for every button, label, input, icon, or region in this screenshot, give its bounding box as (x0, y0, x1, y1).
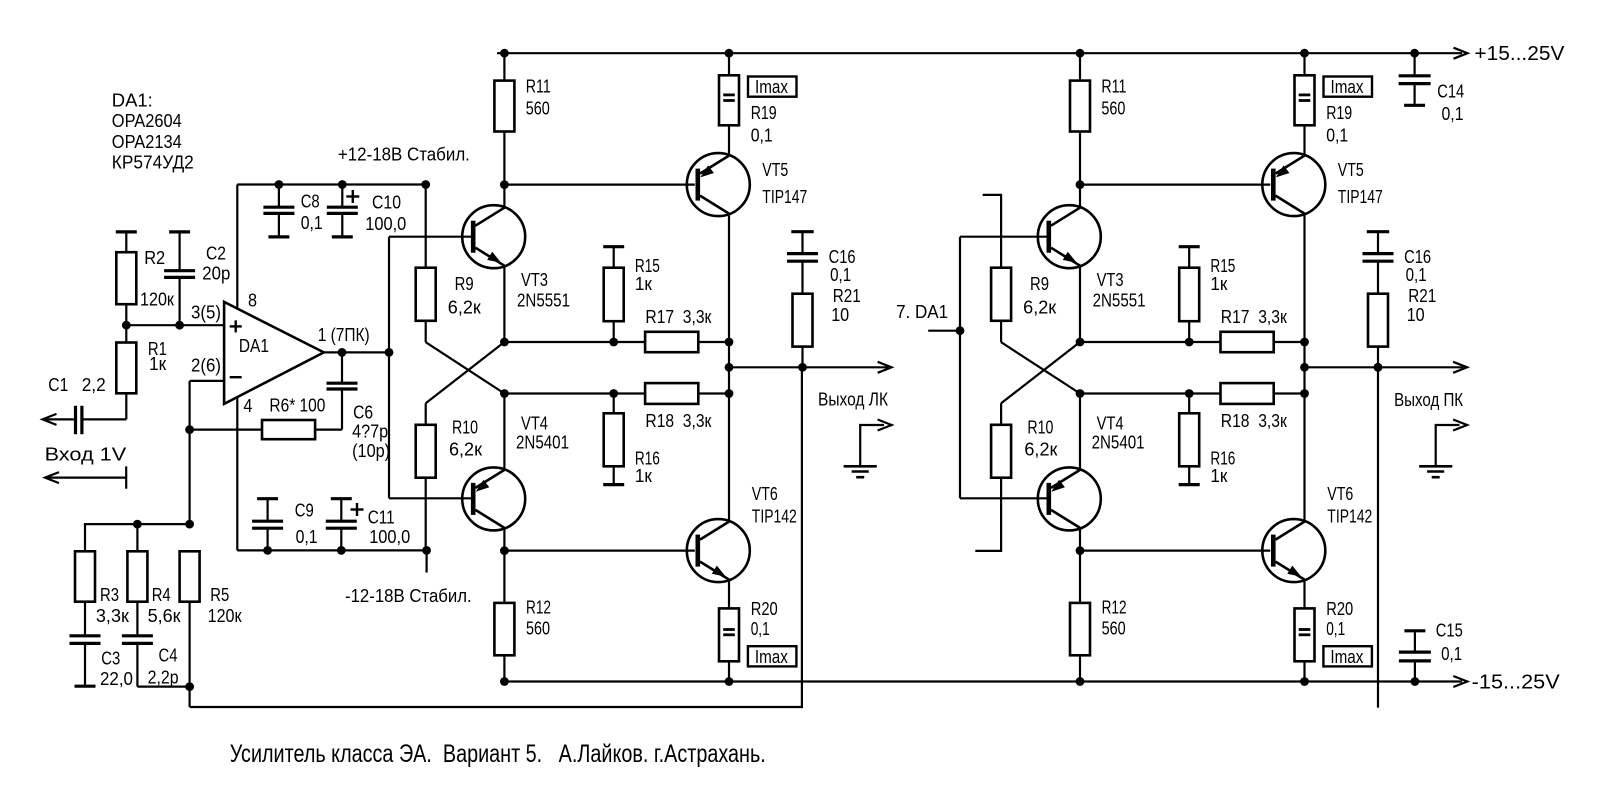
label R10 (449, 418, 482, 460)
wire input arrow (43, 414, 57, 425)
transistor VT3 (462, 205, 525, 268)
svg-text:Imax: Imax (1331, 77, 1364, 97)
transistor VT4 (right) (1038, 467, 1101, 530)
wire output arrowhead (878, 362, 892, 373)
wire VT5 base line (right) (1080, 184, 1270, 186)
svg-text:C16: C16 (829, 247, 856, 267)
node VT3 collector junction (500, 180, 509, 189)
resistor R20 current sense (719, 580, 739, 682)
node C2 bottom junction (175, 321, 184, 330)
resistor R10 (416, 403, 436, 477)
svg-text:TIP147: TIP147 (1338, 187, 1383, 207)
svg-text:R18 3,3к: R18 3,3к (1221, 411, 1287, 431)
svg-text:3(5): 3(5) (191, 303, 221, 323)
node R19 top (725, 49, 734, 58)
wire VT3 base line (right) (960, 236, 1047, 238)
svg-text:100,0: 100,0 (365, 214, 406, 234)
node R19 top (right) (1300, 49, 1309, 58)
svg-text:R3: R3 (100, 585, 119, 605)
label R11 (right) (1101, 76, 1126, 118)
svg-text:6,2к: 6,2к (1024, 440, 1057, 460)
node VT4-R12 junction (500, 546, 509, 555)
op-amp plus input symbol (230, 325, 242, 327)
label C14 (1437, 82, 1464, 125)
svg-text:C8: C8 (301, 192, 320, 212)
wire divider top line (85, 524, 190, 551)
wire output ground arrow (860, 425, 884, 466)
resistor R19 current sense (right) (1295, 53, 1315, 155)
svg-text:2,2: 2,2 (82, 375, 106, 395)
transistor VT5 (right) (1262, 153, 1325, 216)
resistor R2 (116, 232, 137, 343)
wire upper rail (right) (1080, 341, 1305, 343)
node channel-2 output junction (956, 326, 965, 335)
svg-text:2N5401: 2N5401 (1092, 433, 1145, 453)
svg-text:VT6: VT6 (1327, 484, 1353, 504)
svg-text:C9: C9 (295, 501, 314, 521)
svg-text:8: 8 (248, 291, 257, 311)
wire input ground line with terminal (46, 466, 126, 488)
capacitor C16 (787, 232, 818, 294)
node C4-R5 junction (185, 682, 194, 691)
label R12 (right) (1102, 598, 1127, 639)
wire non-inverting input (126, 324, 224, 326)
svg-text:560: 560 (1102, 619, 1126, 639)
label R9 (448, 274, 481, 318)
label R21 (831, 286, 861, 325)
svg-text:VT4: VT4 (1097, 414, 1124, 434)
label VT6 (752, 484, 797, 527)
svg-text:Вход 1V: Вход 1V (45, 444, 127, 464)
svg-text:R11: R11 (526, 76, 551, 96)
label R20 (751, 599, 778, 639)
label R19 (right) (1326, 103, 1352, 145)
wire VT4 collector lead (503, 529, 505, 551)
label R9 (right) (1023, 274, 1056, 318)
wire VT5 base line (504, 184, 694, 186)
wire input ground arrowhead (45, 472, 59, 483)
wire output ground arrow (right) (1436, 425, 1460, 466)
svg-text:Усилитель класса ЭА. Вариант: Усилитель класса ЭА. Вариант 5. А.Лайков… (230, 740, 766, 768)
label R10 (right) (1024, 418, 1057, 460)
node R17 right (725, 338, 734, 347)
svg-text:TIP142: TIP142 (1327, 507, 1372, 527)
label C4 (148, 646, 179, 688)
label C1 (48, 375, 105, 395)
wire VT4 collector lead (right) (1079, 529, 1081, 551)
svg-text:Выход ПК: Выход ПК (1394, 390, 1463, 410)
transistor VT6 (687, 519, 750, 582)
capacitor C16 (right) (1363, 232, 1394, 294)
svg-text:R17 3,3к: R17 3,3к (645, 307, 711, 327)
svg-text:R10: R10 (452, 418, 478, 438)
wire output tap (729, 366, 888, 368)
label R1 (148, 339, 167, 374)
label R2 (140, 248, 174, 309)
label R11 (526, 76, 551, 118)
capacitor C11 polarized (326, 499, 364, 551)
svg-text:C6: C6 (353, 402, 373, 422)
svg-text:C10: C10 (372, 193, 401, 213)
svg-text:560: 560 (1101, 99, 1125, 119)
svg-text:C15: C15 (1436, 620, 1463, 640)
resistor R1 (116, 343, 136, 420)
label R15 (right) (1210, 256, 1235, 294)
label Imax box top (748, 77, 797, 97)
resistor R17 (645, 332, 698, 352)
capacitor C14 (1399, 53, 1431, 105)
label R12 (526, 598, 551, 639)
wire -12-18V stabilized rail (237, 549, 426, 551)
node op-amp output junction (385, 348, 394, 357)
svg-text:+15...25V: +15...25V (1474, 43, 1565, 65)
wire lower rail (504, 392, 729, 394)
svg-text:0,1: 0,1 (1326, 125, 1348, 145)
svg-text:R15: R15 (635, 256, 660, 276)
svg-text:0,1: 0,1 (301, 213, 323, 233)
resistor R12 (494, 551, 514, 682)
svg-text:R18 3,3к: R18 3,3к (645, 411, 711, 431)
resistor R20 current sense (right) (1295, 580, 1315, 682)
svg-text:1к: 1к (635, 466, 652, 486)
label VT6 (right) (1327, 484, 1372, 527)
resistor R3 (75, 551, 95, 601)
node R15 bottom (609, 338, 618, 347)
wire VT5 collector lead (728, 214, 730, 342)
wire upper rail (504, 341, 729, 343)
svg-text:R6* 100: R6* 100 (269, 395, 325, 415)
wire VT3 emitter lead (503, 266, 505, 342)
wire R10 bottom lead (right) (975, 478, 1001, 551)
node R16 top (right) (1185, 389, 1194, 398)
svg-text:100,0: 100,0 (369, 527, 410, 547)
wire VT5 collector lead (right) (1303, 214, 1305, 342)
svg-text:R12: R12 (1102, 598, 1127, 618)
transistor VT6 (right) (1262, 519, 1325, 582)
transistor VT4 (462, 467, 525, 530)
label R16 (635, 449, 660, 487)
svg-text:C11: C11 (368, 508, 395, 528)
label C9 (295, 501, 318, 547)
transistor VT3 (right) (1038, 205, 1101, 268)
svg-text:-15...25V: -15...25V (1472, 671, 1561, 693)
label VT5 (right) (1338, 160, 1383, 207)
svg-text:2,2p: 2,2p (148, 667, 179, 687)
resistor R10 (right) (991, 403, 1011, 477)
node R18 right (right) (1300, 389, 1309, 398)
svg-text:0,1: 0,1 (296, 527, 318, 547)
node C11 bottom (337, 546, 346, 555)
wire op-amp output vertical (388, 237, 390, 499)
svg-text:R11: R11 (1101, 76, 1126, 96)
capacitor C6 (315, 352, 357, 429)
node R20 bottom (right) (1300, 677, 1309, 686)
label Imax box top (right) (1324, 77, 1373, 97)
resistor R9 (right) (991, 268, 1011, 343)
wire ground arrowhead (right) (1453, 420, 1467, 431)
wire output column (right) (1303, 342, 1305, 394)
svg-text:0,1: 0,1 (1326, 619, 1345, 639)
svg-text:R21: R21 (833, 286, 861, 306)
svg-text:C2: C2 (206, 244, 226, 264)
resistor R17 (right) (1221, 332, 1274, 352)
node R1-R2 junction (122, 321, 131, 330)
wire VT4 emitter lead (503, 394, 505, 470)
label VT4 (right) (1092, 414, 1145, 453)
resistor R11 (right) (1070, 53, 1090, 184)
svg-text:0,1: 0,1 (751, 125, 773, 145)
wire feedback line (190, 367, 802, 707)
node upper rail left (right) (1076, 338, 1085, 347)
wire VT3 emitter lead (right) (1079, 266, 1081, 342)
label R21 (right) (1407, 286, 1437, 325)
wire VT3 collector lead (right) (1079, 185, 1081, 208)
wire output arrowhead (right) (1453, 362, 1467, 373)
label R4 (148, 585, 181, 626)
svg-text:R15: R15 (1210, 256, 1235, 276)
svg-text:R19: R19 (751, 103, 777, 123)
svg-text:R10: R10 (1027, 418, 1053, 438)
label C6 (352, 402, 390, 461)
svg-text:4: 4 (243, 396, 252, 416)
wire inverting input (190, 380, 225, 382)
label C10 (365, 193, 406, 234)
wire op-amp pin4 supply line (236, 397, 238, 550)
wire op-amp pin8 supply line (236, 185, 238, 309)
svg-text:R5: R5 (210, 585, 229, 605)
svg-text:10: 10 (831, 305, 849, 325)
label Imax box bottom (748, 646, 797, 666)
capacitor C1 input (44, 406, 126, 434)
node C9 bottom (263, 546, 272, 555)
svg-text:C1: C1 (48, 375, 68, 395)
resistor R5 (180, 551, 200, 601)
node R16 top (609, 389, 618, 398)
label R3 (96, 585, 129, 626)
svg-text:6,2к: 6,2к (1023, 298, 1056, 318)
resistor R6 (190, 420, 316, 439)
op-amp U1 DA1 triangle (224, 302, 324, 404)
resistor R16 (603, 394, 624, 485)
node lower rail left (right) (1076, 389, 1085, 398)
node upper rail left (500, 338, 509, 347)
svg-text:0,1: 0,1 (830, 265, 851, 285)
node feedback stub top (right) (1374, 363, 1383, 372)
resistor R19 current sense (719, 53, 739, 155)
svg-text:7. DA1: 7. DA1 (896, 302, 948, 322)
wire R10 diagonal (426, 342, 505, 403)
svg-text:4?7p: 4?7p (352, 422, 388, 442)
label R19 (751, 103, 777, 145)
svg-text:OPA2604: OPA2604 (112, 111, 182, 131)
node R12 bottom (right) (1076, 677, 1085, 686)
node output tap (right) (1300, 363, 1309, 372)
node VT3 collector junction (right) (1076, 180, 1085, 189)
svg-text:R2: R2 (144, 248, 165, 268)
label R20 (right) (1326, 599, 1353, 639)
node R18 right (725, 389, 734, 398)
svg-text:1к: 1к (1210, 466, 1227, 486)
op-amp minus input symbol (230, 376, 242, 378)
wire ground arrowhead (878, 420, 892, 431)
resistor R21 (right) (1368, 294, 1388, 368)
svg-text:1к: 1к (149, 354, 166, 374)
wire feedback stub (right) (1377, 367, 1379, 707)
svg-text:0,1: 0,1 (1442, 104, 1464, 124)
label Imax box bottom (right) (1323, 646, 1372, 666)
label C16 (829, 247, 856, 285)
svg-text:VT5: VT5 (1338, 160, 1364, 180)
resistor R15 (603, 247, 624, 342)
capacitor C15 (1399, 631, 1431, 682)
label C16 (right) (1404, 247, 1431, 285)
svg-text:R21: R21 (1408, 286, 1436, 306)
resistor R12 (right) (1070, 551, 1090, 682)
label DA1 types list (112, 90, 194, 172)
svg-text:1к: 1к (1210, 274, 1227, 294)
node R5 top (185, 520, 194, 529)
label C8 (301, 192, 323, 234)
wire VT4 base line (389, 497, 471, 499)
label R16 (right) (1210, 449, 1235, 487)
svg-text:6,2к: 6,2к (449, 440, 482, 460)
node R11 top (right) (1076, 49, 1085, 58)
node C10 top (338, 180, 347, 189)
svg-text:R17 3,3к: R17 3,3к (1221, 307, 1287, 327)
label C3 (100, 648, 133, 688)
svg-text:22,0: 22,0 (100, 669, 133, 689)
capacitor C9 (252, 499, 283, 551)
wire VT3 base line (389, 236, 471, 238)
resistor R21 (793, 294, 813, 368)
wire output tap (right) (1305, 366, 1464, 368)
svg-text:R9: R9 (455, 274, 474, 294)
svg-text:VT6: VT6 (752, 484, 778, 504)
node R11 top (500, 49, 509, 58)
node R21 bottom (right) (1374, 363, 1383, 372)
label VT3 (right) (1093, 270, 1146, 311)
wire VT6 base line (right) (1080, 549, 1270, 551)
svg-text:+12-18В Стабил.: +12-18В Стабил. (338, 145, 470, 165)
svg-text:VT3: VT3 (1097, 270, 1124, 290)
svg-text:20p: 20p (202, 263, 230, 283)
svg-text:560: 560 (526, 619, 550, 639)
svg-text:VT5: VT5 (762, 160, 788, 180)
svg-text:-12-18В Стабил.: -12-18В Стабил. (345, 586, 472, 606)
resistor R11 (494, 53, 514, 184)
svg-text:2N5401: 2N5401 (516, 433, 569, 453)
node R21 bottom (798, 363, 807, 372)
node R15 bottom (right) (1185, 338, 1194, 347)
svg-text:0,1: 0,1 (751, 619, 770, 639)
label VT4 (516, 414, 569, 453)
resistor R16 (right) (1179, 394, 1200, 485)
svg-text:5,6к: 5,6к (148, 606, 181, 626)
label C15 (1436, 620, 1463, 664)
wire +12-18V stabilized rail (237, 183, 425, 185)
svg-text:Imax: Imax (755, 647, 788, 667)
ground symbol (844, 466, 877, 477)
wire VT6 base line (504, 549, 694, 551)
wire output column (728, 342, 730, 394)
svg-text:Выход ЛК: Выход ЛК (818, 389, 888, 409)
node -12-18V rail / R10 junction (422, 546, 431, 555)
resistor R15 (right) (1179, 247, 1200, 342)
node lower rail left (500, 389, 509, 398)
node R4 top (133, 520, 142, 529)
svg-text:C14: C14 (1437, 82, 1464, 102)
resistor R18 (645, 383, 698, 404)
svg-text:6,2к: 6,2к (448, 298, 481, 318)
wire R9 top lead (425, 185, 427, 268)
svg-text:C4: C4 (159, 646, 178, 666)
wire +15V arrowhead (1454, 48, 1468, 59)
label VT3 (517, 270, 570, 311)
svg-text:1 (7ПК): 1 (7ПК) (318, 325, 370, 345)
node +12-18V rail end (421, 180, 430, 189)
svg-text:C3: C3 (101, 648, 120, 668)
svg-text:DA1: DA1 (239, 336, 269, 356)
svg-text:DA1:: DA1: (112, 90, 153, 110)
capacitor C4 (122, 602, 190, 687)
wire -15V supply rail (504, 680, 1462, 682)
wire +12-18V stub (right) (983, 195, 1001, 268)
svg-text:120к: 120к (140, 289, 174, 309)
node C8 top (275, 180, 284, 189)
svg-text:1к: 1к (635, 274, 652, 294)
node R20 bottom (725, 677, 734, 686)
node C14 top (1410, 49, 1419, 58)
wire R5 bottom lead (189, 602, 191, 707)
wire R9 diagonal (right) (1001, 342, 1080, 393)
node C6 top (338, 348, 347, 357)
svg-text:R20: R20 (1326, 599, 1353, 619)
svg-text:0,1: 0,1 (1441, 644, 1462, 664)
svg-text:R20: R20 (751, 599, 778, 619)
svg-text:TIP142: TIP142 (752, 507, 797, 527)
svg-text:120к: 120к (208, 606, 242, 626)
svg-text:10: 10 (1407, 305, 1425, 325)
resistor R9 (416, 268, 436, 343)
svg-text:R4: R4 (152, 585, 171, 605)
svg-text:3,3к: 3,3к (96, 606, 129, 626)
svg-text:2N5551: 2N5551 (517, 291, 570, 311)
wire VT6 collector lead (728, 394, 730, 522)
svg-text:VT3: VT3 (521, 270, 548, 290)
capacitor C10 polarized (327, 185, 360, 237)
wire +15V supply rail (497, 52, 1462, 54)
svg-text:C16: C16 (1404, 247, 1431, 267)
wire VT3 collector lead (503, 185, 505, 208)
wire R4 top lead (136, 524, 138, 551)
label R5 (208, 585, 242, 626)
wire VT6 collector lead (right) (1303, 394, 1305, 522)
wire channel-2 output stub (928, 330, 960, 332)
capacitor C8 (263, 185, 294, 237)
label C11 (368, 508, 411, 547)
wire op-amp output (324, 351, 389, 353)
svg-text:2(6): 2(6) (191, 356, 221, 376)
svg-text:R19: R19 (1326, 103, 1352, 123)
svg-text:R9: R9 (1030, 274, 1049, 294)
resistor R4 (127, 551, 147, 601)
wire lower rail (right) (1080, 392, 1305, 394)
node C15 bottom (1411, 677, 1420, 686)
ground symbol (right) (1419, 466, 1452, 477)
wire VT4 emitter lead (right) (1079, 394, 1081, 470)
node VT4-R12 junction (right) (1076, 546, 1085, 555)
capacitor C3 (70, 602, 101, 687)
